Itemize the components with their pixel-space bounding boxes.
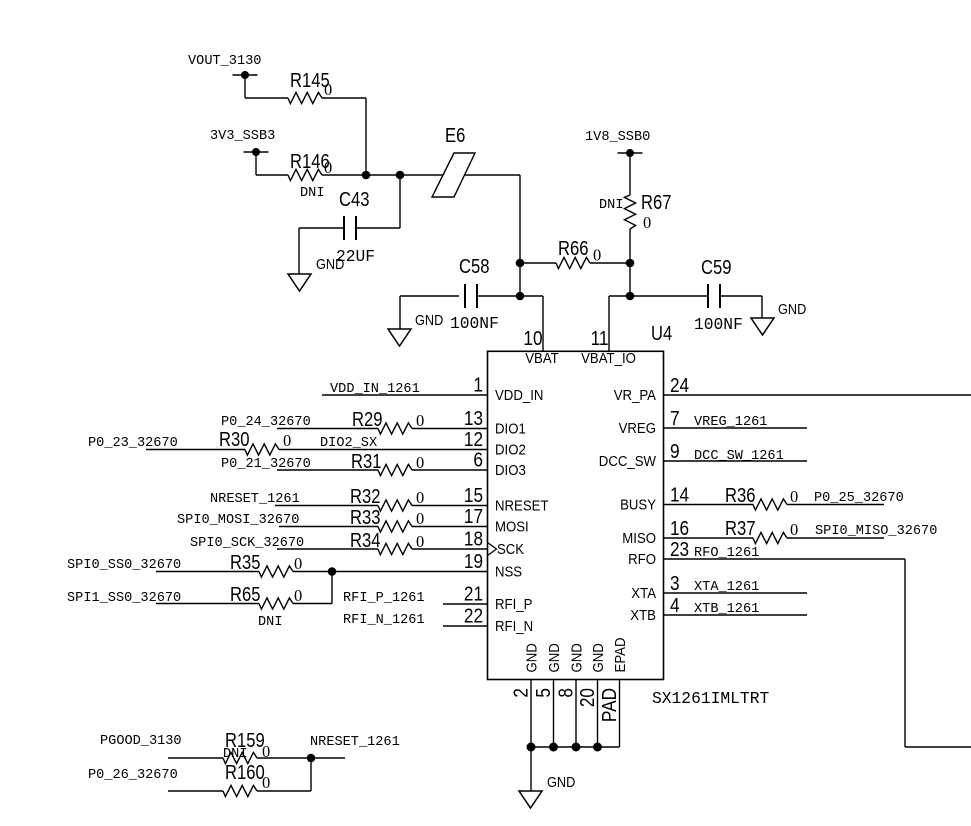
svg-text:SPI0_MOSI_32670: SPI0_MOSI_32670 <box>177 513 299 528</box>
svg-text:C59: C59 <box>701 257 732 279</box>
svg-text:19: 19 <box>464 551 483 573</box>
svg-text:22: 22 <box>464 606 483 628</box>
svg-text:DIO3: DIO3 <box>495 462 526 479</box>
svg-text:NRESET: NRESET <box>495 498 549 515</box>
wire <box>629 153 631 195</box>
svg-text:SPI0_SS0_32670: SPI0_SS0_32670 <box>67 558 181 573</box>
wire pin4 <box>664 614 808 616</box>
svg-text:R35: R35 <box>230 552 261 574</box>
wire <box>277 548 378 550</box>
wire <box>257 757 345 759</box>
wire <box>399 175 401 228</box>
wire <box>275 505 378 507</box>
svg-text:DNI: DNI <box>599 198 623 213</box>
wire <box>629 229 631 296</box>
op-amp U4 SX1261IMLTRT body <box>488 351 664 679</box>
svg-text:21: 21 <box>464 584 483 606</box>
svg-text:VBAT_IO: VBAT_IO <box>581 350 636 367</box>
svg-text:16: 16 <box>670 518 689 540</box>
wire <box>412 548 488 550</box>
svg-text:VDD_IN: VDD_IN <box>495 387 543 404</box>
wire <box>530 747 532 791</box>
wire <box>412 505 488 507</box>
svg-text:24: 24 <box>670 375 689 397</box>
svg-text:15: 15 <box>464 485 483 507</box>
svg-text:11: 11 <box>591 328 609 350</box>
svg-text:8: 8 <box>556 688 578 698</box>
svg-text:PGOOD_3130: PGOOD_3130 <box>100 734 182 749</box>
svg-text:17: 17 <box>464 506 483 528</box>
svg-text:DIO1: DIO1 <box>495 421 526 438</box>
svg-text:SCK: SCK <box>497 541 524 558</box>
svg-text:P0_23_32670: P0_23_32670 <box>88 436 178 451</box>
svg-text:SX1261IMLTRT: SX1261IMLTRT <box>652 689 769 708</box>
svg-text:6: 6 <box>473 450 483 472</box>
wire <box>156 571 259 573</box>
svg-text:R65: R65 <box>230 584 261 606</box>
svg-text:R32: R32 <box>350 486 381 508</box>
svg-text:R29: R29 <box>352 409 383 431</box>
svg-text:0: 0 <box>593 246 601 265</box>
svg-text:R37: R37 <box>725 518 756 540</box>
wire <box>299 227 344 229</box>
svg-text:GND: GND <box>523 643 540 672</box>
svg-text:NRESET_1261: NRESET_1261 <box>310 735 400 750</box>
svg-text:R34: R34 <box>350 530 381 552</box>
svg-text:3: 3 <box>670 573 680 595</box>
svg-text:R36: R36 <box>725 485 756 507</box>
svg-text:GND: GND <box>316 256 344 273</box>
svg-text:GND: GND <box>568 643 585 672</box>
svg-text:7: 7 <box>670 408 680 430</box>
wire pin10 <box>542 296 544 351</box>
svg-text:E6: E6 <box>445 125 465 147</box>
svg-text:0: 0 <box>416 453 424 472</box>
wire pin7 <box>664 427 808 429</box>
wire pin16 <box>664 537 754 539</box>
svg-text:2: 2 <box>511 688 533 698</box>
svg-text:NSS: NSS <box>495 564 522 581</box>
svg-text:SPI0_MISO_32670: SPI0_MISO_32670 <box>815 524 937 539</box>
clock marker pin 18 <box>488 543 497 556</box>
wire <box>520 262 556 264</box>
svg-text:DCC_SW_1261: DCC_SW_1261 <box>694 449 784 464</box>
svg-text:4: 4 <box>670 595 680 617</box>
svg-text:MISO: MISO <box>622 530 656 547</box>
svg-text:P0_24_32670: P0_24_32670 <box>221 415 311 430</box>
wire pin21 <box>443 603 488 605</box>
svg-text:0: 0 <box>416 411 424 430</box>
wire <box>412 469 488 471</box>
junction <box>626 292 635 301</box>
svg-text:VBAT: VBAT <box>525 350 559 367</box>
svg-text:RFI_N_1261: RFI_N_1261 <box>343 613 425 628</box>
svg-text:PAD: PAD <box>599 688 621 722</box>
svg-text:13: 13 <box>464 408 483 430</box>
wire <box>787 537 884 539</box>
svg-text:0: 0 <box>416 488 424 507</box>
svg-text:0: 0 <box>790 487 798 506</box>
svg-text:MOSI: MOSI <box>495 519 529 536</box>
svg-text:R66: R66 <box>558 238 589 260</box>
node A <box>362 171 371 180</box>
wire <box>322 97 366 99</box>
wire pin23 RFO <box>664 558 906 560</box>
svg-text:DIO2: DIO2 <box>495 442 526 459</box>
junction <box>307 754 316 763</box>
node VBAT <box>516 259 525 268</box>
svg-text:1V8_SSB0: 1V8_SSB0 <box>585 130 650 145</box>
svg-text:RFI_P: RFI_P <box>495 596 532 613</box>
svg-text:5: 5 <box>533 688 555 698</box>
wire <box>293 603 332 605</box>
svg-text:0: 0 <box>643 213 651 232</box>
svg-text:9: 9 <box>670 441 680 463</box>
svg-text:18: 18 <box>464 529 483 551</box>
wire <box>293 571 488 573</box>
wire pin24 VR_PA <box>664 394 971 396</box>
svg-text:DNI: DNI <box>258 615 282 630</box>
svg-text:0: 0 <box>324 80 332 99</box>
svg-text:GND: GND <box>778 301 806 318</box>
svg-text:0: 0 <box>416 532 424 551</box>
svg-text:0: 0 <box>790 520 798 539</box>
wire <box>519 175 521 296</box>
wire pin1 <box>322 394 488 396</box>
svg-text:GND: GND <box>590 643 607 672</box>
svg-text:23: 23 <box>670 539 689 561</box>
svg-text:10: 10 <box>523 328 542 350</box>
wire pin3 <box>664 592 808 594</box>
wire <box>279 449 488 451</box>
wire pin14 <box>664 504 754 506</box>
svg-text:P0_25_32670: P0_25_32670 <box>814 491 904 506</box>
wire <box>156 603 259 605</box>
wire <box>244 75 246 98</box>
svg-text:GND: GND <box>547 774 575 791</box>
wire pin11 <box>608 296 610 351</box>
svg-text:GND: GND <box>415 312 443 329</box>
wire <box>590 262 630 264</box>
svg-text:VOUT_3130: VOUT_3130 <box>188 54 261 69</box>
svg-text:EPAD: EPAD <box>612 637 629 672</box>
svg-text:1: 1 <box>473 375 483 397</box>
svg-text:XTB: XTB <box>630 607 656 624</box>
svg-text:0: 0 <box>416 509 424 528</box>
svg-text:RFI_P_1261: RFI_P_1261 <box>343 591 425 606</box>
svg-text:DIO2_SX: DIO2_SX <box>320 436 377 451</box>
svg-text:0: 0 <box>283 431 291 450</box>
junction <box>328 567 337 576</box>
svg-text:100NF: 100NF <box>450 314 499 333</box>
junction <box>516 292 525 301</box>
svg-text:0: 0 <box>262 773 270 792</box>
svg-text:BUSY: BUSY <box>620 497 656 514</box>
svg-text:14: 14 <box>670 485 689 507</box>
svg-text:R67: R67 <box>641 192 672 214</box>
svg-text:RFI_N: RFI_N <box>495 618 533 635</box>
wire <box>279 526 378 528</box>
svg-text:0: 0 <box>294 554 302 573</box>
svg-text:RFO: RFO <box>628 551 656 568</box>
gnd bus wire <box>531 746 620 748</box>
svg-text:VR_PA: VR_PA <box>614 387 656 404</box>
wire <box>146 449 245 451</box>
svg-text:U4: U4 <box>651 323 672 345</box>
svg-text:XTA: XTA <box>631 585 656 602</box>
wire <box>277 428 378 430</box>
wire pin9 <box>664 460 808 462</box>
wire <box>720 295 762 297</box>
wire pin22 <box>443 625 488 627</box>
svg-text:NRESET_1261: NRESET_1261 <box>210 492 300 507</box>
wire <box>277 469 378 471</box>
wire <box>257 790 311 792</box>
wire <box>787 504 884 506</box>
wire <box>477 295 543 297</box>
svg-text:DCC_SW: DCC_SW <box>599 453 657 470</box>
svg-text:VREG: VREG <box>619 420 656 437</box>
wire <box>255 152 257 175</box>
svg-text:20: 20 <box>577 688 599 707</box>
svg-text:P0_26_32670: P0_26_32670 <box>88 768 178 783</box>
svg-text:0: 0 <box>324 158 332 177</box>
svg-text:12: 12 <box>464 429 483 451</box>
svg-text:0: 0 <box>294 586 302 605</box>
wire <box>322 174 520 176</box>
wire <box>400 295 459 297</box>
svg-text:C43: C43 <box>339 189 370 211</box>
wire <box>412 428 488 430</box>
svg-text:3V3_SSB3: 3V3_SSB3 <box>210 129 275 144</box>
wire <box>168 757 223 759</box>
svg-text:R160: R160 <box>225 762 265 784</box>
svg-text:C58: C58 <box>459 256 490 278</box>
svg-text:R31: R31 <box>351 451 382 473</box>
svg-text:R33: R33 <box>350 507 381 529</box>
wire <box>168 790 223 792</box>
wire <box>412 526 488 528</box>
svg-text:DNI: DNI <box>300 186 324 201</box>
svg-text:100NF: 100NF <box>694 315 743 334</box>
svg-text:R30: R30 <box>219 429 250 451</box>
svg-text:GND: GND <box>546 643 563 672</box>
